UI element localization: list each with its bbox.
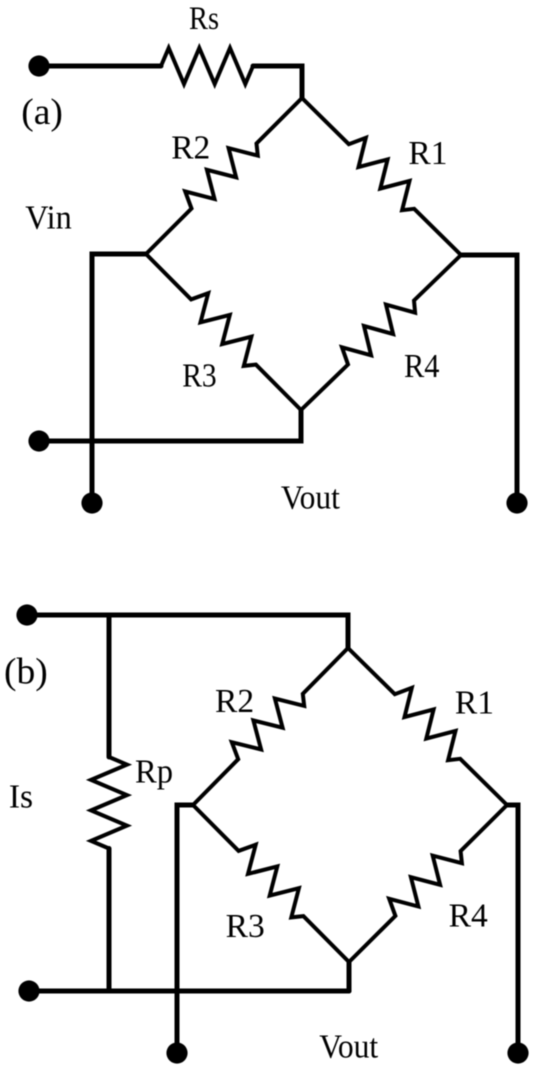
svg-text:(b): (b) [4,651,48,692]
resistor R1 (b), arm top node to right node [348,648,507,805]
svg-text:Vout: Vout [281,480,341,517]
wire, (a) right node to lower-right terminal [461,255,517,503]
wire, Rs to bridge top node [253,66,302,98]
resistor R2 (a), arm left node to top node [146,98,302,254]
wire, (a) top input lead [39,64,161,69]
terminal dot, (b) Vout left [166,1042,187,1063]
terminal dot, (b) bottom input return [18,980,39,1001]
svg-text:Vout: Vout [319,1029,379,1066]
svg-text:(a): (a) [21,92,63,133]
svg-text:Rs: Rs [189,1,219,37]
terminal dot, (a) top input [28,55,49,76]
svg-text:R4: R4 [449,897,488,934]
terminal dot, (a) bottom input return [28,430,49,451]
resistor R4 (a), arm bottom node to right node [301,255,461,410]
svg-text:R1: R1 [408,135,447,172]
resistor R4 (b), arm bottom node to right node [349,805,507,962]
wire, (a) bottom node to bottom-left terminal [39,410,301,441]
svg-text:R1: R1 [455,685,494,722]
resistor R2 (b), arm left node to top node [193,648,348,805]
svg-text:Vin: Vin [25,200,72,237]
wire, (b) left node to lower-left terminal [177,805,193,1053]
wire, (b) bottom node drop [347,962,352,991]
wire, (b) bottom rail [29,989,349,994]
svg-text:R3: R3 [182,357,217,394]
svg-text:R4: R4 [404,348,440,385]
svg-text:R3: R3 [226,908,265,945]
svg-text:R2: R2 [215,683,254,720]
resistor Rs [161,48,253,84]
wire, Rp bottom lead [107,849,112,992]
wire, (b) right node to lower-right terminal [507,805,518,1053]
resistor R1 (a), arm top node to right node [302,98,461,255]
resistor R3 (a), arm left node to bottom node [146,254,301,410]
svg-text:Rp: Rp [135,754,173,791]
svg-text:R2: R2 [171,130,210,167]
resistor R3 (b), arm left node to bottom node [193,805,349,962]
terminal dot, (a) Vout right [506,492,527,513]
wire, Rp top lead [107,615,112,757]
svg-text:Is: Is [9,779,33,816]
wire, (b) top rail [27,615,348,648]
wire, (a) left node to lower-left terminal [92,254,146,503]
terminal dot, (a) Vout left [81,492,102,513]
terminal dot, (b) top input [16,604,37,625]
terminal dot, (b) Vout right [507,1042,528,1063]
resistor Rp [91,757,127,849]
